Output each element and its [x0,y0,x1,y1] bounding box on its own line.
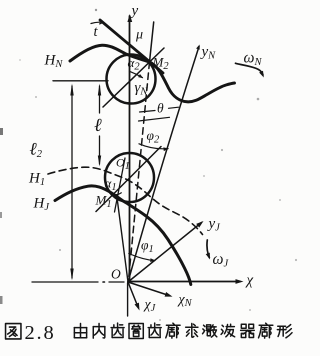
svg-text:θ: θ [157,101,164,116]
svg-text:μ: μ [135,28,143,43]
svg-text:y: y [130,3,139,19]
svg-text:χ: χ [245,273,254,289]
svg-text:O: O [111,267,121,282]
svg-text:2.8: 2.8 [25,322,56,344]
svg-text:ℓ: ℓ [94,116,102,136]
